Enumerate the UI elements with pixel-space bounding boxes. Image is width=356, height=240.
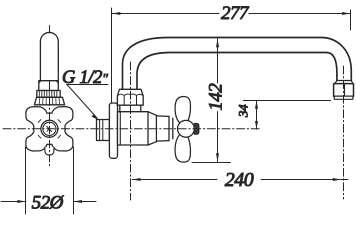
dimension 277 line (112, 13, 351, 15)
dimension 52 right extension line (73, 147, 75, 214)
wall flange (109, 103, 117, 158)
svg-text:142: 142 (206, 83, 227, 111)
handle inner fillet arcs front view (38, 120, 60, 138)
handle side view end cap (194, 123, 199, 134)
dimension 240 right arrow (333, 178, 342, 181)
svg-text:240: 240 (225, 169, 254, 191)
node frontview-vertical-centerline (49, 26, 51, 34)
dimension 142 line (217, 39, 219, 162)
handle hub screw cross (47, 126, 52, 131)
dimension 277 left arrow (112, 12, 121, 15)
knurled ring front view (37, 91, 60, 98)
dimension 142 bottom arrow (216, 153, 219, 161)
dimension 52 left extension line (25, 147, 27, 214)
dimension 240 line (132, 179, 348, 181)
label G 1/2 leader arrow (92, 114, 100, 121)
dimension 34 extension line from aerator (243, 100, 330, 102)
label G 1/2 leader line (67, 85, 97, 119)
packing nut band front view (39, 81, 59, 91)
label G 1/2 underline (67, 84, 109, 86)
dimension 34 line (256, 101, 258, 130)
handle bottom reference line for 142 (192, 162, 231, 164)
dimension 34 top arrow (255, 101, 258, 109)
bonnet skirt front view (34, 97, 64, 105)
wall pipe stub G1/2 (97, 120, 110, 141)
valve body side view (118, 112, 149, 145)
dimension 34 bottom arrow (255, 121, 258, 129)
aerator bottom band (334, 96, 353, 99)
handle side view bottom lobe (175, 134, 190, 162)
handle side view top lobe (175, 97, 190, 124)
svg-text:277: 277 (221, 3, 250, 24)
node riser-axis-centerline (130, 62, 132, 200)
spout outer contour (123, 38, 352, 90)
handle side view boss circle (178, 120, 195, 137)
dimension 277 left extension line (111, 8, 113, 103)
svg-text:52Ø: 52Ø (32, 192, 65, 213)
body-flange seam line (119, 112, 121, 145)
handle south tab (45, 147, 54, 155)
node outlet-axis-centerline (343, 66, 345, 199)
spout end flare (335, 81, 353, 84)
handle hub outer circle (41, 120, 58, 137)
handle hub inner circle (43, 122, 56, 135)
spout inner contour (137, 53, 337, 90)
aerator nut (334, 84, 354, 97)
body cone (148, 112, 156, 145)
riser union nut side view (117, 89, 143, 105)
handle stem cylinder front view (40, 32, 58, 80)
bonnet neck side view (156, 115, 169, 141)
node main-horizontal-axis-centerline (3, 128, 261, 130)
cross handle front view outline (26, 107, 73, 151)
dimension 277 right extension line (350, 10, 352, 30)
riser neck under nut (120, 105, 141, 112)
dimension 52 left arrow line (1, 201, 26, 203)
svg-text:34: 34 (236, 104, 251, 118)
bonnet face ring (169, 116, 173, 140)
dimension 240 left arrow (132, 178, 141, 181)
dimension 142 top arrow (216, 39, 219, 47)
dimension 52 right arrow line (74, 201, 97, 203)
dimension 277 right arrow (342, 12, 351, 15)
